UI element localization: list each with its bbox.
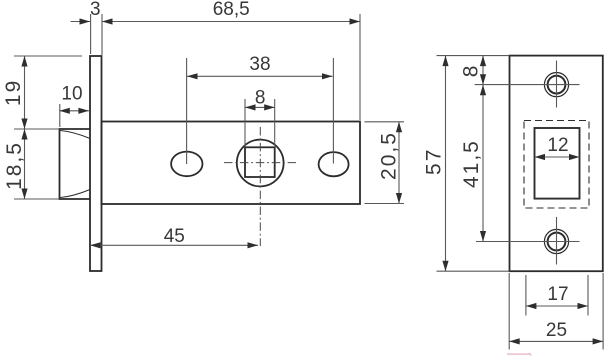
dimension 68,5 arrow left (102, 18, 113, 24)
dimension 25 ext left (508, 273, 510, 350)
dimension 18,5 ext bottom (14, 198, 59, 200)
svg-text:10: 10 (61, 84, 82, 105)
dimension 8 arrow right (264, 104, 275, 110)
dimension 25 ext right (602, 273, 604, 350)
dimension 57 ext top (437, 55, 510, 57)
dimension 3 ext line left (90, 14, 92, 54)
bottom screw crosshair v (556, 217, 558, 265)
dimension 19 line (24, 56, 26, 129)
dimension 19 ext top (14, 55, 82, 57)
dimension 12 arrow right (569, 154, 580, 160)
dimension 41,5 arrow top (480, 85, 486, 96)
dimension 10 arrow left (59, 108, 70, 114)
dimension 8 right arrow top (480, 56, 486, 67)
dimension 8 ext line left (244, 99, 246, 146)
top screw hole inner (548, 76, 566, 94)
dimension 20,5 arrow top (396, 122, 402, 133)
dimension 41,5 line (482, 85, 484, 242)
left oval hole (171, 152, 202, 177)
dimension 25 arrow left (509, 338, 520, 344)
dimension 25 line (509, 340, 603, 342)
dimension 10 line (59, 110, 89, 112)
latch bolt (side view) (60, 129, 91, 199)
dimension 20,5 arrow bottom (396, 193, 402, 204)
bottom screw hole inner (548, 233, 566, 251)
svg-text:8: 8 (460, 64, 483, 78)
dimension 57 arrow bottom (442, 261, 448, 272)
dimension 38 ext line right (332, 58, 334, 164)
dimension 8 line (245, 106, 275, 108)
dimension 38 arrow right (322, 73, 333, 79)
dimension 8 right line (482, 56, 484, 85)
dimension 17 arrow right (578, 303, 589, 309)
dimension 25 arrow right (593, 338, 604, 344)
bolt bevel curve top (61, 131, 91, 139)
spindle square hole (245, 147, 275, 177)
dimension 19 arrow top (21, 56, 27, 67)
dimension 45 arrow right (248, 242, 259, 248)
svg-text:68,5: 68,5 (213, 0, 250, 20)
dimension 57 line (445, 56, 447, 272)
svg-text:25: 25 (546, 320, 567, 341)
dimension 41,5 arrow bottom (480, 231, 486, 242)
watermark artifact (507, 353, 529, 355)
dimension 17 line (526, 305, 588, 307)
svg-text:19: 19 (2, 79, 25, 106)
dimension 68,5 ext line right (359, 14, 361, 120)
svg-text:3: 3 (90, 0, 101, 20)
bottom screw hole outer (544, 229, 568, 253)
top screw crosshair h (475, 84, 580, 86)
bottom screw crosshair h (476, 241, 580, 243)
dashed latch cutout (524, 121, 589, 209)
dimension 18,5 arrow bottom (21, 189, 27, 200)
dimension 68,5 arrow right (350, 18, 361, 24)
dimension 10 arrow right (78, 108, 89, 114)
dimension 12 arrow left (535, 154, 546, 160)
dimension 8 right arrow bottom (480, 74, 486, 85)
bolt bevel curve bottom (61, 190, 91, 198)
faceplate (side view) (90, 56, 102, 271)
svg-text:57: 57 (422, 148, 445, 175)
svg-text:20,5: 20,5 (378, 131, 401, 180)
dimension 8 arrow left (245, 104, 256, 110)
top screw hole outer (544, 73, 568, 97)
centerline vertical through spindle / ext for 45 (259, 127, 261, 246)
dimension 38 line (187, 75, 333, 77)
svg-text:18,5: 18,5 (3, 141, 26, 190)
dimension 20,5 ext bottom (365, 203, 405, 205)
svg-text:17: 17 (547, 284, 568, 305)
dimension 3 tail line (71, 21, 91, 23)
dimension 12 line (535, 156, 580, 158)
dimension 45 arrow left (90, 242, 101, 248)
dimension 18,5 line (24, 129, 26, 199)
svg-text:41,5: 41,5 (460, 139, 483, 188)
dimension 3 ext line right (101, 14, 103, 55)
dimension 18,5 arrow top (21, 129, 27, 140)
top screw crosshair v (556, 61, 558, 108)
dimension 68,5 line (102, 21, 360, 23)
svg-text:12: 12 (547, 135, 568, 156)
dimension 17 ext left (525, 275, 527, 316)
dimension 57 arrow top (442, 56, 448, 67)
dimension 38 ext line left (186, 58, 188, 164)
dimension 20,5 ext top (365, 121, 405, 123)
dimension 19 arrow bottom (21, 119, 27, 130)
svg-text:8: 8 (255, 88, 266, 109)
svg-text:38: 38 (249, 54, 270, 75)
dimension 17 arrow left (526, 303, 537, 309)
latch opening rect (535, 128, 580, 199)
centerline horizontal through spindle (224, 162, 296, 164)
spindle circle (237, 140, 284, 187)
svg-text:45: 45 (164, 226, 185, 247)
right oval hole (319, 152, 349, 176)
dimension 18,5 ext mid (14, 128, 59, 130)
dimension 3 arrow (80, 18, 91, 24)
dimension 8 ext line right (274, 99, 276, 146)
dimension 20,5 line (398, 122, 400, 204)
dimension 10 ext line (59, 104, 61, 127)
strike plate (front view) (510, 56, 603, 272)
latch body tube (side view) (102, 122, 361, 205)
dimension 45 line (90, 244, 258, 246)
dimension 38 arrow left (187, 73, 198, 79)
dimension 17 ext right (587, 275, 589, 316)
dimension 57 ext bottom (437, 270, 510, 272)
